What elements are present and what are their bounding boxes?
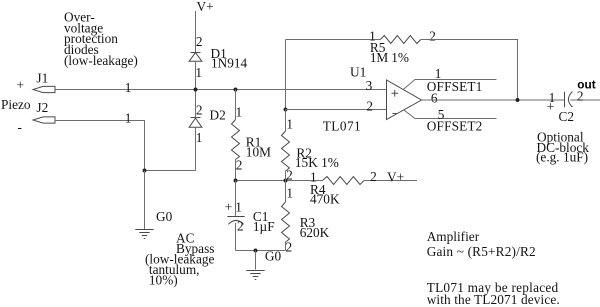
svg-text:1: 1 (286, 116, 293, 131)
svg-text:V+: V+ (197, 0, 214, 14)
svg-text:1: 1 (195, 65, 202, 80)
svg-text:2: 2 (237, 219, 244, 234)
junction at J2/ground node (143, 169, 147, 173)
wire R1 bottom stub (235, 160, 237, 181)
resistor R4 (323, 177, 365, 185)
wire inverting input to op-amp pin 2 (286, 109, 387, 111)
resistor R5 (380, 36, 421, 44)
svg-text:1: 1 (196, 130, 203, 145)
svg-text:(e.g. 1uF): (e.g. 1uF) (536, 150, 588, 165)
wire feedback column (R5 left down to inverting input) (285, 40, 287, 110)
capacitor C2 (565, 92, 573, 108)
svg-text:(low-leakage): (low-leakage) (64, 53, 138, 68)
svg-text:1N914: 1N914 (211, 56, 248, 71)
junction inverting input node (284, 108, 288, 112)
junction input net / D1 D2 column (194, 88, 198, 92)
wire input net to D2 cathode (195, 90, 197, 118)
junction output / feedback (516, 98, 520, 102)
note: amplifier gain comment (427, 229, 536, 259)
svg-text:with the TL2071 device.: with the TL2071 device. (427, 292, 560, 307)
resistor R1 (232, 120, 240, 160)
svg-text:G0: G0 (265, 249, 282, 264)
wire R3 bottom stub (285, 242, 287, 251)
svg-text:1: 1 (286, 186, 293, 201)
wire input net J1 to op-amp pin 3 (55, 89, 387, 91)
capacitor C1 (227, 217, 244, 225)
wire feedback top left segment (286, 39, 381, 41)
svg-text:+: + (17, 78, 25, 93)
svg-text:J1: J1 (36, 71, 48, 86)
svg-text:2: 2 (286, 240, 293, 255)
svg-text:10%): 10%) (149, 273, 178, 288)
svg-text:C2: C2 (559, 109, 575, 124)
ground G0 (bottom) (246, 271, 264, 280)
svg-text:Gain ~ (R5+R2)/R2: Gain ~ (R5+R2)/R2 (427, 244, 536, 259)
svg-text:620K: 620K (300, 225, 330, 240)
note: AC bypass comment (145, 231, 214, 288)
svg-text:1: 1 (235, 199, 242, 214)
svg-text:+: + (547, 99, 555, 114)
wire C1 bottom stub (235, 223, 237, 251)
note: optional DC-block comment (536, 130, 589, 165)
svg-text:Amplifier: Amplifier (427, 229, 480, 244)
connector J1 (33, 86, 55, 92)
junction R1 / C1 node (234, 179, 238, 183)
svg-text:2: 2 (370, 169, 377, 184)
wire gain node horizontal (R1 to R4) (236, 180, 323, 182)
wire R1 top stub (235, 90, 237, 120)
connector J2 (33, 117, 55, 123)
wire R3 top stub (285, 181, 287, 203)
svg-text:TL071: TL071 (323, 118, 361, 133)
svg-text:1µF: 1µF (253, 219, 275, 234)
wire bottom ground rail (236, 250, 286, 252)
wire R2 top stub (285, 110, 287, 132)
svg-text:-: - (18, 119, 22, 134)
svg-text:1: 1 (125, 80, 132, 95)
op-amp U1 (387, 80, 422, 120)
resistor R3 (282, 202, 290, 242)
diode D2 (189, 118, 202, 128)
svg-text:D2: D2 (210, 108, 226, 123)
wire ground stem (255, 251, 257, 270)
svg-text:15K 1%: 15K 1% (295, 155, 339, 170)
wire offset2 stub (404, 110, 497, 119)
svg-text:G0: G0 (156, 209, 173, 224)
svg-text:2: 2 (196, 103, 203, 118)
wire C1 top stub (235, 181, 237, 217)
svg-text:1: 1 (236, 105, 243, 120)
svg-text:V+: V+ (387, 170, 404, 185)
note: TL071 replacement comment (427, 280, 560, 307)
svg-text:J2: J2 (36, 100, 48, 115)
wire D1 anode to input net (195, 61, 197, 89)
wire R2 bottom stub (285, 171, 287, 181)
svg-text:2: 2 (429, 28, 436, 43)
junction input net / R1 (234, 88, 238, 92)
junction R2 / R3 / R4 node (284, 179, 288, 183)
svg-text:1: 1 (125, 110, 132, 125)
wire D2 anode to ground branch (145, 170, 196, 172)
svg-text:out: out (577, 77, 595, 91)
svg-text:470K: 470K (310, 192, 340, 207)
svg-text:2: 2 (286, 168, 293, 183)
wire down to ground G0 (144, 171, 146, 230)
wire R4 to V+ (364, 180, 417, 182)
ground G0 (left) (135, 230, 153, 239)
svg-text:1M 1%: 1M 1% (370, 50, 409, 65)
svg-text:2: 2 (236, 158, 243, 173)
svg-text:2: 2 (366, 99, 373, 114)
wire V+ to D1 cathode (195, 11, 197, 52)
note: overvoltage protection comment (64, 10, 138, 68)
svg-text:10M: 10M (246, 145, 271, 160)
svg-text:Piezo: Piezo (1, 97, 31, 112)
resistor R2 (282, 131, 290, 171)
svg-text:OFFSET2: OFFSET2 (427, 118, 483, 133)
wire offset1 stub (404, 80, 497, 90)
wire output net (422, 99, 565, 101)
svg-text:3: 3 (366, 78, 373, 93)
svg-text:2: 2 (196, 34, 203, 49)
wire D2 anode down (195, 127, 197, 170)
diode D1 (189, 53, 202, 62)
wire feedback top right segment down to output (421, 40, 518, 101)
svg-text:U1: U1 (350, 65, 366, 80)
wire C2 to out (570, 99, 600, 101)
svg-text:+: + (225, 199, 233, 214)
wire J2 to ground corner (55, 121, 145, 171)
svg-text:6: 6 (431, 90, 438, 105)
junction ground rail (254, 249, 258, 253)
